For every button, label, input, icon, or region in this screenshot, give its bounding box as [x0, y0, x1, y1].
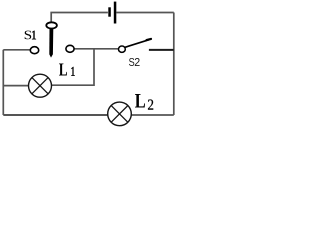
wire: top rail right segment (battery to top-right corner): [116, 12, 174, 14]
label L2 subscript 2: [148, 100, 153, 110]
label L1 subscript 1: [72, 67, 75, 76]
lamp L2 circle: [108, 102, 132, 126]
wire: bottom rail (left rail bottom to lamp L2 left): [3, 114, 108, 116]
lamp L2 cross line 1: [111, 106, 128, 123]
wire: lamp L1 left to left rail: [3, 85, 28, 87]
switch S1 right contact circle: [66, 45, 74, 52]
label S1 digit 1: [32, 31, 36, 40]
battery cell: long plate (positive): [114, 2, 117, 24]
label L1: [59, 64, 67, 76]
wire: middle wire S1 right contact to S2: [74, 48, 118, 50]
switch S2 blade tip handle: [147, 39, 152, 40]
label S2 digit 2: [135, 58, 140, 66]
switch S2 pivot terminal circle: [119, 46, 126, 52]
wire: riser from middle wire down and left to lamp L1: [52, 49, 94, 85]
label S1: [25, 31, 32, 40]
switch S1 pivot terminal circle: [46, 22, 57, 28]
wire: left rail: [2, 50, 4, 115]
wire: S1 left contact to left rail: [3, 49, 31, 51]
wire: S2 right contact bar to right rail: [149, 49, 174, 51]
wire: top rail left segment (S1 drop corner to battery): [51, 13, 108, 22]
switch S1 left contact circle: [30, 47, 38, 54]
lamp L1 circle: [29, 74, 52, 97]
wire: right rail: [173, 13, 175, 116]
label S2: [129, 58, 134, 66]
wire: lamp L2 right to right rail: [131, 114, 174, 116]
switch S1 blade (vertical, open): [49, 28, 53, 57]
switch S2 blade (open, slanted): [125, 40, 150, 48]
lamp L2 cross line 2: [111, 106, 128, 123]
lamp L1 cross line 1: [32, 78, 48, 94]
battery cell: short plate (negative): [108, 7, 111, 16]
label L2: [135, 94, 145, 108]
lamp L1 cross line 2: [32, 78, 48, 94]
